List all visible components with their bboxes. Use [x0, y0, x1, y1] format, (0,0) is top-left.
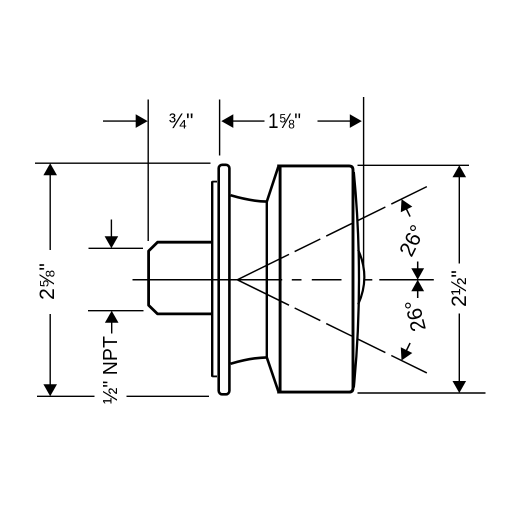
- extension line middle (plate front): [219, 100, 221, 156]
- seam neck/cone: [266, 202, 268, 358]
- dimension 2 5/8 inch: [43, 163, 57, 175]
- spray angle line upper: [237, 186, 427, 279]
- extension line left of 3/4 dim: [147, 100, 149, 242]
- extension line top right horizontal: [358, 164, 470, 166]
- svg-text:¾": ¾": [169, 110, 194, 133]
- extension line right (spray face): [363, 97, 365, 268]
- seam cone/head cylinder: [279, 166, 282, 392]
- face rim arc: [354, 172, 359, 388]
- svg-text:2⅝": 2⅝": [36, 263, 59, 300]
- dimension 3/4 inch: [103, 120, 140, 122]
- cone slant top: [267, 167, 279, 202]
- NPT dim top tick: [89, 247, 144, 249]
- svg-text:1⅝": 1⅝": [268, 110, 301, 133]
- arrow on lower angle line: [401, 347, 413, 360]
- neck top curve: [231, 195, 267, 201]
- threaded nipple 1/2" NPT connector: [149, 242, 211, 314]
- extension line bottom right horizontal: [358, 392, 486, 394]
- wall plate escutcheon: [219, 165, 230, 394]
- svg-text:2½": 2½": [448, 270, 471, 307]
- arrow on upper angle line: [401, 199, 413, 212]
- extension line top left horizontal: [35, 162, 211, 164]
- svg-text:½" NPT: ½" NPT: [100, 336, 122, 404]
- mounting collar behind wall plate: [211, 181, 213, 376]
- neck bottom curve: [231, 357, 267, 363]
- extension line bottom left horizontal: [37, 395, 95, 397]
- dimension 2 1/2 inch: [453, 165, 467, 177]
- centerline: [133, 279, 283, 281]
- spray head outline: [277, 166, 353, 392]
- face dome arc: [358, 250, 364, 305]
- NPT dim bottom tick: [88, 310, 144, 312]
- dimension 1/2 NPT: [110, 220, 112, 238]
- vertex arrows at centerline: [411, 268, 424, 280]
- spray angle line lower: [237, 280, 427, 373]
- cone slant bottom: [267, 357, 279, 391]
